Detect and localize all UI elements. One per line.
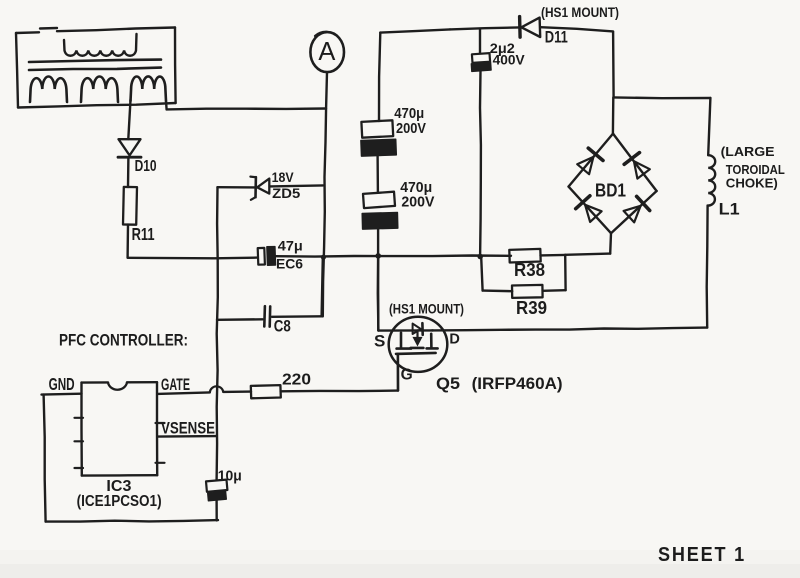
svg-text:R38: R38: [514, 260, 545, 280]
svg-text:SHEET 1: SHEET 1: [658, 544, 746, 566]
svg-text:L1: L1: [719, 199, 740, 218]
svg-text:A: A: [318, 36, 336, 66]
svg-text:(ICE1PCSO1): (ICE1PCSO1): [77, 493, 162, 510]
svg-text:D: D: [449, 332, 459, 348]
svg-text:(LARGE: (LARGE: [721, 144, 775, 159]
svg-text:S: S: [374, 331, 385, 350]
svg-text:EC6: EC6: [276, 255, 303, 271]
svg-text:400V: 400V: [493, 52, 526, 68]
svg-text:G: G: [401, 367, 413, 384]
svg-text:(HS1 MOUNT): (HS1 MOUNT): [541, 5, 619, 20]
svg-text:GND: GND: [49, 374, 75, 394]
svg-text:220: 220: [282, 371, 311, 388]
svg-text:Q5: Q5: [436, 374, 460, 393]
svg-text:47μ: 47μ: [278, 238, 303, 254]
svg-text:D11: D11: [545, 28, 568, 47]
svg-text:10μ: 10μ: [218, 467, 242, 484]
svg-text:GATE: GATE: [161, 375, 190, 394]
svg-text:200V: 200V: [401, 193, 434, 210]
svg-text:BD1: BD1: [595, 180, 626, 200]
svg-text:(HS1 MOUNT): (HS1 MOUNT): [389, 301, 464, 316]
svg-text:R11: R11: [132, 224, 155, 244]
svg-text:200V: 200V: [396, 120, 426, 137]
svg-text:ZD5: ZD5: [272, 185, 300, 201]
svg-text:18V: 18V: [272, 169, 295, 185]
svg-text:CHOKE): CHOKE): [726, 175, 778, 190]
svg-text:PFC CONTROLLER:: PFC CONTROLLER:: [59, 330, 188, 349]
svg-text:R39: R39: [516, 298, 547, 318]
svg-text:(IRFP460A): (IRFP460A): [472, 374, 563, 393]
svg-text:VSENSE: VSENSE: [161, 420, 215, 438]
svg-text:D10: D10: [135, 158, 157, 175]
svg-text:C8: C8: [274, 318, 291, 336]
